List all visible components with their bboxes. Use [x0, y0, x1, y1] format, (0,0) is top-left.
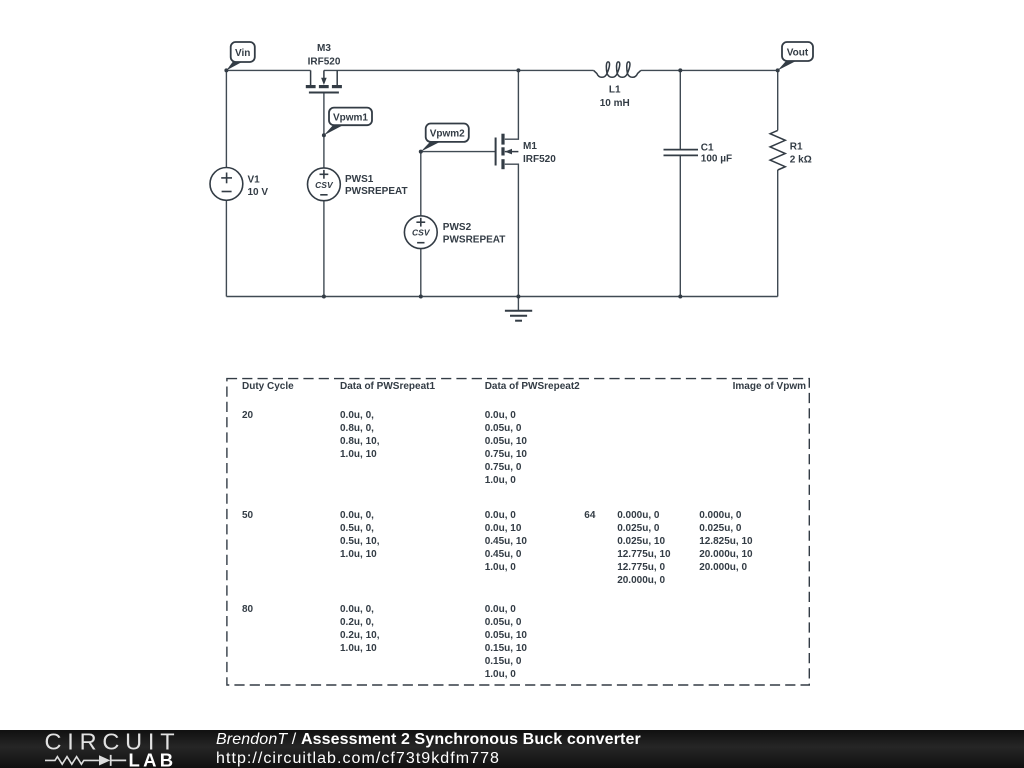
svg-text:R1: R1	[790, 142, 803, 153]
junction dot bottom rail at PWS1	[322, 295, 326, 299]
wire V1 bottom lead	[225, 200, 227, 296]
svg-text:10 V: 10 V	[248, 187, 269, 198]
svg-text:CSV: CSV	[315, 180, 334, 190]
wire R1 top lead	[777, 70, 779, 130]
junction dot bottom rail at C1	[678, 295, 682, 299]
table row 2 duty 50	[242, 510, 253, 523]
label PWS1 value	[345, 174, 408, 197]
svg-text:100 µF: 100 µF	[701, 153, 732, 164]
wire Vpwm2 node to M1 gate	[421, 151, 496, 153]
svg-text:Vout: Vout	[787, 48, 809, 59]
node Vpwm1 flag	[324, 108, 372, 136]
transistor M3	[306, 70, 342, 92]
wire Vpwm2 node to PWS2	[420, 152, 422, 216]
footer url	[216, 750, 500, 768]
transistor M1	[496, 134, 519, 170]
wire PWS1 bottom lead	[323, 201, 325, 297]
wire bottom rail	[226, 296, 777, 298]
table row 1 duty 20	[242, 410, 253, 423]
svg-text:10 mH: 10 mH	[600, 98, 630, 109]
wire R1 bottom lead	[777, 170, 779, 297]
svg-text:M1: M1	[523, 141, 537, 152]
node Vpwm2 junction dot	[419, 150, 423, 154]
node Vin junction dot	[224, 68, 228, 72]
node SW junction dot (M1 drain / top rail)	[516, 68, 520, 72]
label L1 value	[600, 84, 630, 109]
svg-text:L1: L1	[609, 84, 621, 95]
svg-text:C1: C1	[701, 143, 714, 154]
table header row	[242, 381, 294, 394]
svg-text:V1: V1	[248, 175, 261, 186]
svg-text:2 kΩ: 2 kΩ	[790, 155, 812, 166]
data table dashed border	[227, 379, 809, 685]
label C1 value	[701, 143, 732, 165]
junction dot bottom rail at ground	[516, 295, 520, 299]
svg-text:CSV: CSV	[412, 228, 431, 238]
label V1 value	[248, 175, 269, 199]
svg-text:Vpwm2: Vpwm2	[430, 129, 465, 140]
wire M1 drain lead	[505, 70, 519, 139]
svg-text:PWS2: PWS2	[443, 222, 472, 233]
svg-text:Vpwm1: Vpwm1	[333, 112, 368, 123]
label M3 value	[308, 43, 341, 68]
footer title	[216, 731, 641, 749]
node Vpwm2 flag	[421, 124, 469, 152]
inductor L1	[594, 62, 641, 77]
resistor R1	[770, 130, 785, 170]
wire top rail L1 to Vout	[641, 69, 778, 71]
footer bar	[0, 730, 1024, 768]
wire ground stub	[517, 297, 519, 311]
source PWS2	[404, 216, 437, 249]
node Vin flag	[226, 42, 254, 70]
svg-text:LAB: LAB	[129, 749, 177, 767]
node Vout-rail junction dot at C1	[678, 68, 682, 72]
source PWS1	[308, 168, 341, 201]
svg-text:Vin: Vin	[235, 48, 250, 59]
voltage source V1	[210, 168, 243, 201]
node Vpwm1 junction dot	[322, 133, 326, 137]
wire V1 top lead	[225, 70, 227, 167]
wire M1 source lead	[505, 164, 519, 296]
wire top rail M3 source to L1	[324, 69, 594, 71]
label R1 value	[790, 142, 812, 166]
wire C1 top lead	[679, 70, 681, 149]
capacitor C1	[664, 150, 699, 156]
label M1 value	[523, 141, 556, 165]
label PWS2 value	[443, 222, 506, 245]
svg-text:PWSREPEAT: PWSREPEAT	[443, 235, 506, 246]
node Vout junction dot	[776, 68, 780, 72]
wire M3 gate to PWS1	[323, 93, 325, 168]
svg-text:IRF520: IRF520	[523, 154, 556, 165]
wire C1 bottom lead	[679, 155, 681, 296]
node Vout flag	[778, 42, 813, 70]
svg-text:PWSREPEAT: PWSREPEAT	[345, 186, 408, 197]
circuitlab logo	[0, 729, 190, 768]
table row 3 duty 80	[242, 604, 253, 617]
wire PWS2 bottom lead	[420, 249, 422, 297]
svg-text:IRF520: IRF520	[308, 57, 341, 68]
svg-text:PWS1: PWS1	[345, 174, 374, 185]
svg-text:M3: M3	[317, 43, 331, 54]
junction dot bottom rail at PWS2	[419, 295, 423, 299]
ground	[505, 311, 532, 321]
wire top rail Vin to M3 drain	[226, 69, 310, 71]
